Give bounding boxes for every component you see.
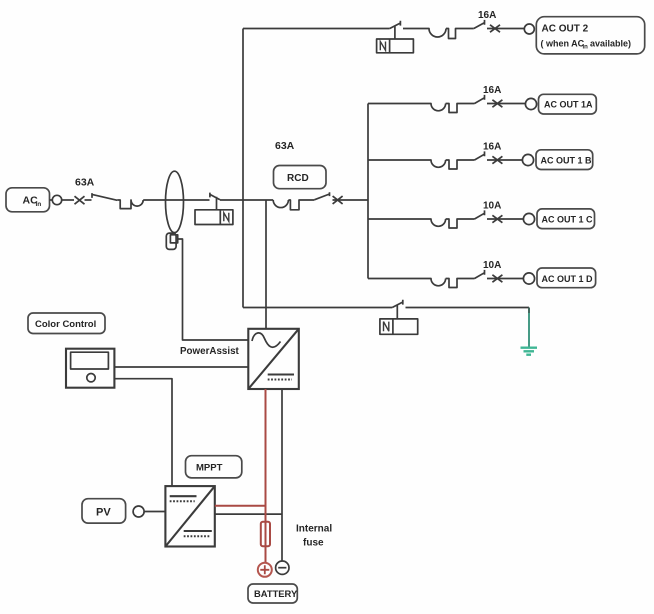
terminal circle ACin xyxy=(52,195,61,204)
AC OUT 2 feed vertical xyxy=(242,29,244,308)
svg-text:PV: PV xyxy=(96,507,111,519)
svg-text:16A: 16A xyxy=(478,10,496,21)
fuse X AC OUT 1C xyxy=(492,215,502,222)
wire panel to MPPT xyxy=(114,379,172,486)
RCD switch contact xyxy=(314,192,329,200)
svg-text:PowerAssist: PowerAssist xyxy=(180,346,240,357)
internal fuse F2 xyxy=(261,522,270,547)
svg-text:10A: 10A xyxy=(483,260,501,271)
svg-text:AC OUT 2: AC OUT 2 xyxy=(542,24,589,35)
svg-text:AC OUT 1A: AC OUT 1A xyxy=(544,100,593,110)
wire RCD to bus with X xyxy=(333,199,369,201)
wire to AC OUT 2 terminal with X xyxy=(487,28,524,30)
svg-text:16A: 16A xyxy=(483,85,501,96)
RCD breaker bumps xyxy=(273,200,314,210)
fuse X RCD output xyxy=(333,196,343,204)
terminal circle 1B xyxy=(522,154,533,165)
AC OUT 1A label box xyxy=(539,94,597,114)
current sensor clamp xyxy=(166,233,177,249)
AC OUT 2 breaker bumps xyxy=(403,29,474,39)
fuse X AC OUT 1D xyxy=(492,275,502,282)
terminal circle AC OUT 2 xyxy=(524,24,534,34)
relay K2 coil xyxy=(377,39,414,53)
switch AC OUT 1A xyxy=(475,95,485,104)
switch S1 (input disconnect) xyxy=(92,193,117,200)
relay K3 coil xyxy=(380,319,418,334)
svg-text:AC OUT 1 D: AC OUT 1 D xyxy=(542,274,594,284)
relay K1 contact (back-feed relay) xyxy=(210,193,220,210)
svg-text:( when AC: ( when AC xyxy=(541,39,585,49)
svg-text:AC OUT 1 C: AC OUT 1 C xyxy=(542,215,594,225)
relay K3 contact (ground relay) xyxy=(392,300,403,319)
svg-text:16A: 16A xyxy=(483,142,501,153)
switch AC OUT 1D xyxy=(475,270,485,279)
branch AC OUT 1A wire xyxy=(368,104,475,113)
fuse X F1 xyxy=(75,196,85,204)
AC OUT 1B label box xyxy=(536,150,593,170)
wire PV to MPPT xyxy=(144,511,165,513)
Color Control panel device xyxy=(66,349,114,388)
wire terminal to fuse X xyxy=(62,199,74,201)
svg-text:available): available) xyxy=(590,39,631,49)
wire X to switch S1 xyxy=(85,199,92,201)
fuse X AC OUT 1B xyxy=(492,156,502,163)
BATTERY label box xyxy=(248,584,298,603)
inverter U1 MultiPlus box xyxy=(248,329,298,389)
red wire fuse to plus terminal xyxy=(265,546,267,562)
wire relay K1 to RCD xyxy=(220,199,273,201)
branch AC OUT 1C wire xyxy=(368,219,475,228)
black wire MPPT to battery minus xyxy=(215,513,282,515)
battery minus terminal xyxy=(276,561,289,574)
PV array box xyxy=(82,499,126,523)
svg-text:63A: 63A xyxy=(275,140,295,152)
svg-text:Internal: Internal xyxy=(296,524,332,535)
wire panel to inverter xyxy=(114,366,248,368)
AC OUT 1C label box xyxy=(537,209,595,229)
svg-text:Color Control: Color Control xyxy=(35,319,96,330)
red wire inverter to fuse xyxy=(265,389,267,522)
black wire inverter to minus terminal xyxy=(281,389,283,561)
fuse X AC OUT 1A xyxy=(492,100,502,107)
wire to terminal 1D with X xyxy=(487,278,523,280)
AC OUT 1D label box xyxy=(537,268,596,288)
wire ACin box to terminal xyxy=(50,199,53,201)
wire to terminal 1B with X xyxy=(487,159,522,161)
switch AC OUT 1C xyxy=(475,210,485,219)
ground relay wire xyxy=(243,307,392,309)
CT ellipse current transformer xyxy=(166,171,184,232)
terminal circle 1A xyxy=(525,98,536,109)
sensor wire to inverter xyxy=(178,239,249,340)
node inverter tap junction xyxy=(265,200,267,329)
svg-text:BATTERY: BATTERY xyxy=(254,588,298,599)
branch AC OUT 1D wire xyxy=(368,279,475,288)
svg-text:fuse: fuse xyxy=(303,538,324,549)
relay K1 coil xyxy=(195,210,233,225)
RCD label box xyxy=(274,166,327,189)
svg-text:10A: 10A xyxy=(483,201,501,212)
branch AC OUT 1B wire xyxy=(368,160,475,169)
battery plus terminal xyxy=(258,563,272,577)
svg-text:AC OUT 1 B: AC OUT 1 B xyxy=(541,156,593,166)
svg-text:RCD: RCD xyxy=(287,173,309,184)
svg-text:MPPT: MPPT xyxy=(196,463,223,474)
svg-text:63A: 63A xyxy=(75,177,95,189)
svg-text:in: in xyxy=(583,45,589,51)
ground symbol xyxy=(521,348,538,355)
wire to terminal 1C with X xyxy=(487,218,523,220)
terminal circle 1D xyxy=(523,273,534,284)
MPPT label box xyxy=(186,456,242,478)
AC OUT 2 switch xyxy=(474,20,485,29)
bus vertical AC OUT 1 xyxy=(367,104,369,279)
switch AC OUT 1B xyxy=(475,151,485,160)
wire breaker to relay K1 through CT xyxy=(143,199,209,201)
red wire MPPT to battery plus xyxy=(215,505,266,507)
earth wire vertical green xyxy=(528,308,530,314)
MCB input breaker (square + semicircle) xyxy=(117,200,143,209)
fuse X AC OUT 2 xyxy=(490,25,500,32)
MPPT charge controller U2 box xyxy=(165,486,214,546)
terminal circle 1C xyxy=(523,213,534,224)
Color Control label box xyxy=(28,313,105,334)
wire to terminal 1A with X xyxy=(487,103,525,105)
svg-text:in: in xyxy=(36,201,42,208)
relay K2 contact (AC OUT 2) xyxy=(390,21,401,39)
wire relay K3 to earth xyxy=(406,307,530,309)
AC OUT 2 wire xyxy=(243,28,390,30)
ACin source box xyxy=(6,188,50,212)
terminal circle PV xyxy=(133,506,144,517)
AC OUT 2 label box xyxy=(536,17,644,54)
